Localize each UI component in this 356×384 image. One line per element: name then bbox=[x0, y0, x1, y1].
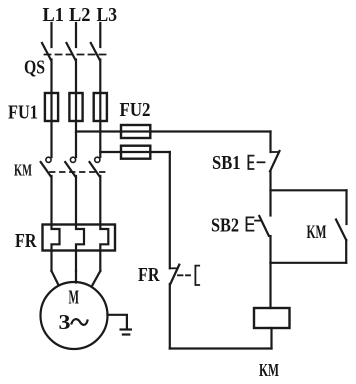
svg-text:FU2: FU2 bbox=[120, 99, 151, 121]
wire motor to ground bbox=[108, 315, 127, 329]
wire junction down to KM coil bbox=[269, 263, 271, 308]
wire bottom rail bbox=[170, 347, 272, 349]
contactor KM main contact 1 fixed circle bbox=[46, 157, 51, 162]
wire QS to KM phase A (through FU1) bbox=[50, 60, 52, 158]
wire branch to KM holding contact (bottom) bbox=[271, 262, 347, 264]
svg-text:SB1: SB1 bbox=[212, 152, 241, 174]
pushbutton SB1 seat tick bbox=[271, 151, 279, 153]
svg-text:M: M bbox=[69, 287, 80, 309]
contactor KM main contact 2 blade bbox=[65, 162, 75, 176]
wire KM to FR heater phase B with heater element bump bbox=[76, 176, 84, 271]
wire KM holding contact upper bbox=[345, 190, 347, 224]
wire control line down to SB1 bbox=[269, 132, 271, 153]
thermal relay FR contact seat tick bbox=[170, 267, 177, 269]
wire motor lead phase C diagonal bbox=[93, 271, 101, 285]
svg-text:KM: KM bbox=[307, 222, 327, 243]
svg-text:FR: FR bbox=[138, 264, 160, 286]
switch QS pole 2 blade bbox=[67, 43, 76, 60]
ground symbol bar 2 bbox=[123, 333, 129, 335]
thermal relay FR heater box bbox=[43, 225, 116, 251]
switch QS pole 1 blade bbox=[42, 43, 51, 60]
pushbutton SB1 actuator E bbox=[248, 156, 253, 169]
svg-text:QS: QS bbox=[24, 57, 45, 79]
wire QS to KM phase B (through FU1) bbox=[75, 60, 77, 158]
contactor KM main contact 3 blade bbox=[90, 162, 100, 176]
wire L1 drop to QS bbox=[50, 23, 52, 47]
fuse FU2 lower bbox=[121, 146, 150, 159]
thermal relay FR trip dashed link bbox=[178, 274, 190, 276]
wire QS to KM phase C (through FU1) bbox=[99, 60, 101, 158]
KM main contacts linkage dashed line bbox=[50, 171, 110, 173]
wire L2 drop to QS bbox=[75, 23, 77, 47]
thermal relay FR trip symbol bbox=[195, 266, 199, 285]
motor M circle bbox=[41, 282, 108, 349]
svg-text:L2: L2 bbox=[69, 4, 91, 26]
pushbutton SB2 actuator E bbox=[247, 217, 254, 230]
wire tap to FU2 lower (control phase 2) bbox=[100, 151, 170, 153]
wire KM coil to bottom rail bbox=[270, 328, 272, 349]
ground symbol bar 1 bbox=[121, 328, 131, 330]
switch QS pole 3 blade bbox=[91, 43, 100, 60]
fuse FU2 upper bbox=[121, 125, 150, 138]
contactor KM main contact 2 fixed circle bbox=[70, 157, 75, 162]
wire FU2 lower to FR contact bbox=[169, 152, 171, 268]
fuse FU1 phase B bbox=[69, 93, 82, 121]
svg-text:FR: FR bbox=[15, 230, 37, 252]
fuse FU1 phase C bbox=[94, 93, 107, 121]
fuse FU1 phase A bbox=[45, 93, 58, 121]
pushbutton SB2 blade (NO) bbox=[259, 216, 269, 236]
svg-text:FU1: FU1 bbox=[8, 102, 38, 124]
pushbutton SB2 actuator dashed link bbox=[255, 220, 261, 222]
pushbutton SB1 actuator dashed link bbox=[258, 161, 265, 163]
pushbutton SB1 blade (NC) bbox=[270, 151, 280, 171]
svg-text:KM: KM bbox=[14, 161, 32, 180]
coil KM bbox=[254, 308, 290, 328]
thermal relay FR contact blade (NC) bbox=[170, 265, 179, 284]
wire SB2 to junction bbox=[269, 236, 271, 263]
wire KM to FR heater phase C with heater element bump bbox=[100, 176, 108, 271]
wire KM to FR heater phase A with heater element bump bbox=[52, 176, 60, 271]
svg-text:3: 3 bbox=[59, 310, 71, 334]
wire branch to KM holding contact (top) bbox=[271, 189, 347, 191]
wire L3 drop to QS bbox=[99, 23, 101, 47]
svg-text:L1: L1 bbox=[43, 4, 65, 26]
QS linkage dashed line bbox=[45, 54, 108, 56]
wire FR contact to bottom rail bbox=[169, 284, 171, 349]
wire tap to FU2 upper (control phase 1) bbox=[76, 130, 271, 132]
contactor KM auxiliary contact blade (NO) bbox=[336, 220, 346, 241]
svg-text:KM: KM bbox=[259, 360, 279, 379]
wire motor lead phase B bbox=[75, 271, 77, 283]
wire SB1 to SB2 bbox=[269, 171, 271, 215]
wire motor lead phase A diagonal bbox=[52, 271, 59, 285]
contactor KM main contact 1 blade bbox=[41, 162, 51, 176]
wire KM holding contact lower bbox=[345, 240, 347, 263]
svg-text:SB2: SB2 bbox=[211, 215, 239, 237]
contactor KM main contact 3 fixed circle bbox=[95, 157, 100, 162]
